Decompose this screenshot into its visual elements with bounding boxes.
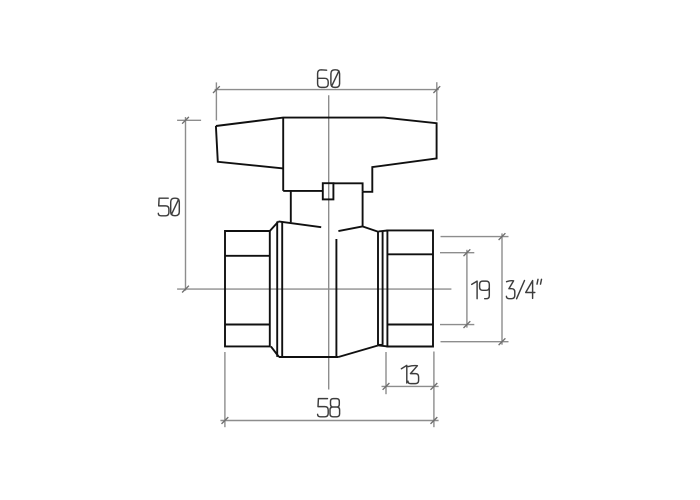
dim 13 left tick xyxy=(383,383,390,390)
handle skirt bottom right xyxy=(333,183,362,192)
dim text 60 digit 0 xyxy=(331,70,340,88)
dim 60 line xyxy=(215,89,439,91)
dim 3/4 top tick xyxy=(499,233,506,240)
dim 3/4 top extension xyxy=(441,236,509,238)
right cap hex flat lower line xyxy=(387,324,433,326)
dim 19 top extension xyxy=(440,252,474,254)
right collar seam line 2 xyxy=(382,231,384,345)
dim text 3/4 digit 3 xyxy=(506,281,514,299)
dim 60 right tick xyxy=(433,86,440,93)
dim text 19 digit 1 xyxy=(472,281,477,299)
dim 19 top tick xyxy=(464,249,471,256)
dim text 3/4 slash xyxy=(517,281,525,299)
body bottom right slant xyxy=(338,346,378,358)
dim text 50 digit 0 xyxy=(171,198,180,216)
body parting line xyxy=(335,239,337,357)
body top left slant xyxy=(270,221,279,231)
dim text 13 digit 3 xyxy=(408,366,419,384)
neck right edge xyxy=(362,192,364,227)
dim 3/4 line xyxy=(501,233,503,344)
right collar seam line 1 xyxy=(377,232,379,345)
dim text 60 digit 6 xyxy=(318,70,329,88)
dim 58 right tick xyxy=(431,417,438,424)
dim text 3/4 digit 4 xyxy=(526,281,535,299)
dim text 58 digit 5 xyxy=(318,399,329,417)
shared right extension for dims 13 and 58 xyxy=(433,352,435,428)
handle left wing left and bottom edge xyxy=(216,126,283,168)
right collar seam bottom connector xyxy=(378,344,383,346)
body bottom edge xyxy=(279,356,338,358)
body bottom left slant xyxy=(271,346,279,357)
body top edge left segment xyxy=(279,221,322,227)
left cap outline xyxy=(225,231,270,346)
dim 19 bottom extension xyxy=(440,324,474,326)
stem packing nut xyxy=(323,183,334,199)
dim text 58 digit 8 xyxy=(330,399,340,417)
dim 19 bottom tick xyxy=(464,321,471,328)
right cap outline xyxy=(387,230,433,346)
body top edge right segment xyxy=(338,226,362,231)
body bottom right connector xyxy=(378,345,388,346)
left collar seam line 2 xyxy=(281,222,283,357)
handle skirt bottom left xyxy=(283,190,323,192)
left collar seam line 1 xyxy=(276,222,278,357)
handle central left edge xyxy=(282,118,284,191)
dim 58 left extension xyxy=(224,352,226,427)
dim text 19 digit 9 xyxy=(480,281,490,299)
handle outer outline xyxy=(216,118,437,192)
dim 13 right tick xyxy=(431,383,438,390)
dim 19 line xyxy=(466,250,468,328)
dim 50 top tick xyxy=(182,117,189,124)
dim 3/4 bottom tick xyxy=(499,338,506,345)
body top right slant xyxy=(362,226,378,232)
dim 50 line xyxy=(185,117,187,291)
dim 13 left extension xyxy=(385,352,387,394)
vertical center line xyxy=(328,95,330,389)
left cap hex flat lower line xyxy=(225,324,270,326)
dim 60 right extension xyxy=(436,82,438,120)
dim text 3/4 inch marks xyxy=(537,279,542,284)
dim 13 line xyxy=(382,385,439,387)
dim 58 left tick xyxy=(222,417,229,424)
neck left edge xyxy=(290,191,292,222)
dim 58 line xyxy=(220,420,438,422)
right cap hex flat upper line xyxy=(387,253,433,255)
dim 3/4 bottom extension xyxy=(441,341,509,343)
dim 50 bottom tick xyxy=(182,286,189,293)
dim 50 top extension dash xyxy=(177,119,201,121)
dim 60 left tick xyxy=(213,86,220,93)
dim 60 left extension xyxy=(215,82,217,120)
dim text 13 digit 1 xyxy=(401,365,406,383)
left cap hex flat upper line xyxy=(225,255,270,257)
horizontal center line xyxy=(177,288,451,290)
dim text 50 digit 5 xyxy=(158,198,169,216)
body top right connector xyxy=(379,230,388,233)
